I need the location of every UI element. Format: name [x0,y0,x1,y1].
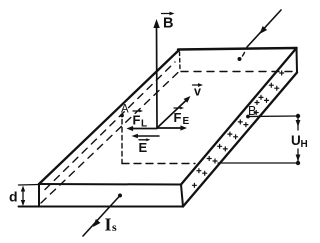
svg-text:U: U [291,133,301,148]
svg-text:I: I [105,215,112,235]
svg-text:s: s [112,220,117,234]
E field arrow [132,134,160,139]
label v vector [193,83,204,87]
I_s current arrow [83,196,120,237]
svg-text:v: v [194,85,201,99]
slab top back edge [178,48,297,50]
hidden back-left vertical edge [179,52,182,70]
svg-text:F: F [174,110,182,125]
hidden bottom-left edge [41,72,179,204]
U_H voltage arrow bottom [296,149,301,162]
plus charges on right face [192,71,283,187]
d dimension arrow [21,186,25,207]
force F_L arrow [127,126,158,131]
slab right-face bottom edge [183,73,297,207]
lead from A to bottom terminal [218,162,298,164]
hidden line through contact A [45,62,175,190]
force F_E arrow [157,125,187,130]
svg-text:d: d [9,189,18,205]
svg-text:F: F [133,113,141,128]
d dimension top tick [19,184,40,187]
label B vector [162,12,175,16]
svg-text:H: H [301,139,308,150]
slab front bottom edge [19,206,184,208]
svg-text:E: E [183,116,190,127]
svg-text:B: B [163,16,173,32]
slab right-face top edge [181,48,297,185]
lead from B to top terminal [248,115,298,118]
current entry arrow [247,10,281,47]
current entry dot [238,57,242,61]
velocity v arrow [157,96,191,128]
label F_E [174,107,181,109]
bottom terminal dot [296,161,300,165]
slab back-right vertical edge [296,48,299,73]
I_s current dot [118,194,122,198]
svg-text:L: L [141,119,147,130]
U_H voltage arrow top [296,116,301,130]
slab front top edge [39,183,181,186]
slab front-right vertical edge [181,185,183,207]
contact B dot [246,115,250,119]
label F_L [133,110,140,112]
slab top-left edge [39,50,179,184]
B axis arrow [153,19,159,128]
label E [139,139,147,141]
contact A dot [120,114,124,118]
hidden back-bottom edge [181,71,295,73]
svg-text:E: E [139,140,148,155]
lead from A horizontal (dashed) [122,163,195,165]
top terminal dot [296,114,300,118]
current entry hidden dash [243,53,245,57]
slab front-left vertical edge [38,184,40,207]
lead from A vertical (dashed) [121,120,123,164]
